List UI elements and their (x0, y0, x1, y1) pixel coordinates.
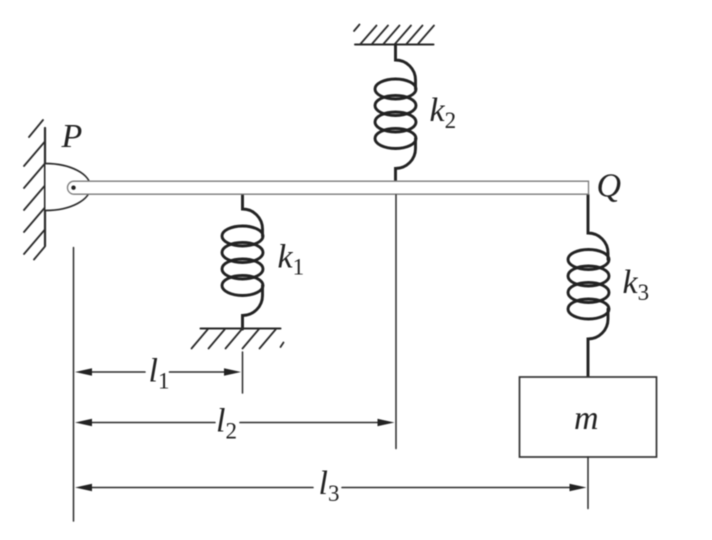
svg-text:k3: k3 (623, 264, 650, 305)
svg-text:l3: l3 (319, 465, 340, 506)
wall at P (24, 120, 45, 260)
spring k3 (568, 195, 609, 377)
dimension leader below m (587, 457, 589, 509)
dimension leader below k1 (242, 352, 244, 393)
pivot bearing at P (46, 164, 91, 211)
svg-text:Q: Q (597, 168, 622, 205)
ceiling support for k2 (354, 25, 434, 45)
svg-text:k1: k1 (278, 239, 305, 280)
pivot pin dot (71, 186, 75, 190)
dimension l3 (75, 484, 587, 491)
svg-text:l2: l2 (216, 403, 237, 444)
mass m block (520, 377, 657, 457)
ground support for k1 (192, 329, 284, 349)
spring k2 (375, 45, 416, 182)
dimension l2 (75, 419, 395, 426)
dimension leader from P (73, 248, 75, 522)
svg-text:k2: k2 (430, 92, 457, 133)
dimension l1 (75, 368, 241, 375)
dimension leader below k2 (395, 195, 397, 449)
svg-text:m: m (574, 400, 599, 437)
bar PQ (68, 181, 589, 194)
svg-text:l1: l1 (149, 353, 170, 394)
svg-text:P: P (61, 118, 83, 155)
spring k1 (222, 195, 263, 329)
